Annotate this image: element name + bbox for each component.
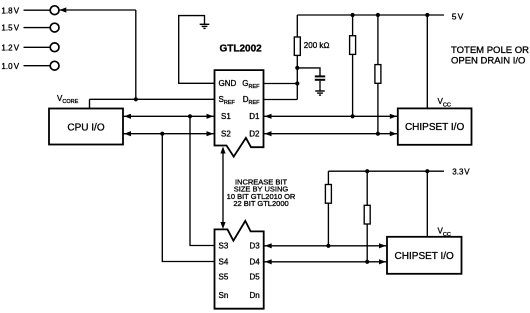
resistor R1 200 kOhm — [294, 15, 300, 55]
wire reference node vertical — [296, 55, 298, 99]
terminal 1.8 V — [1, 6, 59, 16]
node 3.3V-R5 junction — [365, 169, 369, 173]
wire GND pin to ground — [179, 16, 215, 84]
node S1 junction — [188, 114, 192, 118]
svg-text:Sn: Sn — [219, 291, 229, 300]
wire S2 to S4 — [162, 134, 214, 262]
svg-text:S3: S3 — [219, 241, 229, 250]
svg-text:Dn: Dn — [249, 291, 259, 300]
node R2-D1 junction — [351, 114, 355, 118]
wire DREF to reference node — [264, 99, 298, 101]
wire 3.3V rail — [328, 170, 444, 172]
terminal 1.0 V — [1, 61, 59, 71]
wire to filter capacitor — [297, 68, 320, 76]
wire GREF to reference node — [264, 83, 298, 85]
op-amp U2 expansion device outline — [215, 221, 264, 309]
svg-text:CHIPSET I/O: CHIPSET I/O — [405, 122, 464, 133]
wire SREF to 1.8V terminal with arrow — [59, 7, 136, 99]
wire SREF net — [90, 99, 215, 108]
node 3.3V-VCC junction — [425, 169, 429, 173]
svg-text:D3: D3 — [249, 241, 260, 250]
node S2 junction — [160, 132, 164, 136]
wire S2 (CPU to GTL2002) — [123, 131, 215, 136]
svg-text:OPEN DRAIN I/O: OPEN DRAIN I/O — [451, 55, 525, 66]
svg-text:D5: D5 — [249, 272, 260, 281]
svg-text:200 kΩ: 200 kΩ — [304, 41, 330, 50]
resistor R2 pull-up D1 — [350, 15, 356, 116]
label TOTEM POLE OR OPEN DRAIN I/O — [451, 45, 529, 67]
svg-text:1.2V: 1.2V — [1, 43, 19, 52]
node R4-D3 junction — [326, 244, 330, 248]
node SREF junction — [134, 97, 138, 101]
svg-text:1.0V: 1.0V — [1, 62, 19, 71]
wire 5V rail — [297, 14, 444, 16]
resistor R3 pull-up D2 — [375, 15, 381, 134]
node R5-D4 junction — [365, 260, 369, 264]
svg-text:CHIPSET I/O: CHIPSET I/O — [395, 251, 454, 262]
svg-text:3.3V: 3.3V — [452, 168, 470, 177]
wire D3 (to lower chipset) — [264, 243, 387, 248]
CPU I/O box — [49, 109, 123, 145]
wire D1 (GTL2002 to chipset) — [264, 114, 398, 119]
wire S1 to S3 — [190, 116, 215, 245]
node reference-GREF junction — [295, 81, 299, 85]
node 5V-VCC junction — [425, 13, 429, 17]
svg-text:22 BIT GTL2000: 22 BIT GTL2000 — [233, 199, 288, 208]
wire D4 (to lower chipset) — [264, 259, 387, 264]
svg-text:S4: S4 — [219, 257, 229, 266]
wire expansion (GTL2002 to lower device) — [220, 147, 225, 230]
wire S1 (CPU to GTL2002) — [123, 114, 215, 119]
svg-text:D2: D2 — [249, 130, 260, 139]
svg-text:TOTEM POLE OR: TOTEM POLE OR — [451, 45, 529, 56]
resistor R5 pull-up D4 — [364, 171, 370, 262]
resistor R4 pull-up D3 — [325, 171, 331, 246]
svg-text:GTL2002: GTL2002 — [220, 44, 263, 55]
capacitor C1 — [315, 76, 325, 90]
wire D2 (GTL2002 to chipset) — [264, 131, 398, 136]
CHIPSET I/O box lower — [387, 237, 462, 274]
svg-text:S2: S2 — [221, 130, 231, 139]
wire VCC chipset 1 — [426, 15, 428, 108]
node R3-D2 junction — [376, 132, 380, 136]
ground (capacitor) — [315, 91, 325, 95]
op-amp U1 GTL2002 outline — [215, 70, 264, 157]
svg-text:S1: S1 — [221, 112, 231, 121]
ground (GND pin) — [200, 24, 210, 28]
svg-text:S5: S5 — [219, 272, 229, 281]
node reference-cap junction — [295, 66, 299, 70]
svg-text:5V: 5V — [452, 11, 464, 21]
svg-text:D1: D1 — [249, 112, 260, 121]
node 5V-R2 junction — [351, 13, 355, 17]
CHIPSET I/O box upper — [398, 108, 472, 144]
svg-text:1.8V: 1.8V — [1, 6, 19, 15]
svg-text:GND: GND — [219, 79, 237, 88]
node 5V-R3 junction — [376, 13, 380, 17]
terminal 1.5 V — [1, 23, 59, 33]
label INCREASE BIT SIZE note — [227, 177, 296, 208]
terminal 1.2 V — [1, 43, 59, 53]
wire VCC chipset 2 — [426, 171, 428, 237]
svg-text:CPU I/O: CPU I/O — [67, 122, 104, 133]
svg-text:1.5V: 1.5V — [1, 24, 19, 33]
svg-text:D4: D4 — [249, 257, 260, 266]
